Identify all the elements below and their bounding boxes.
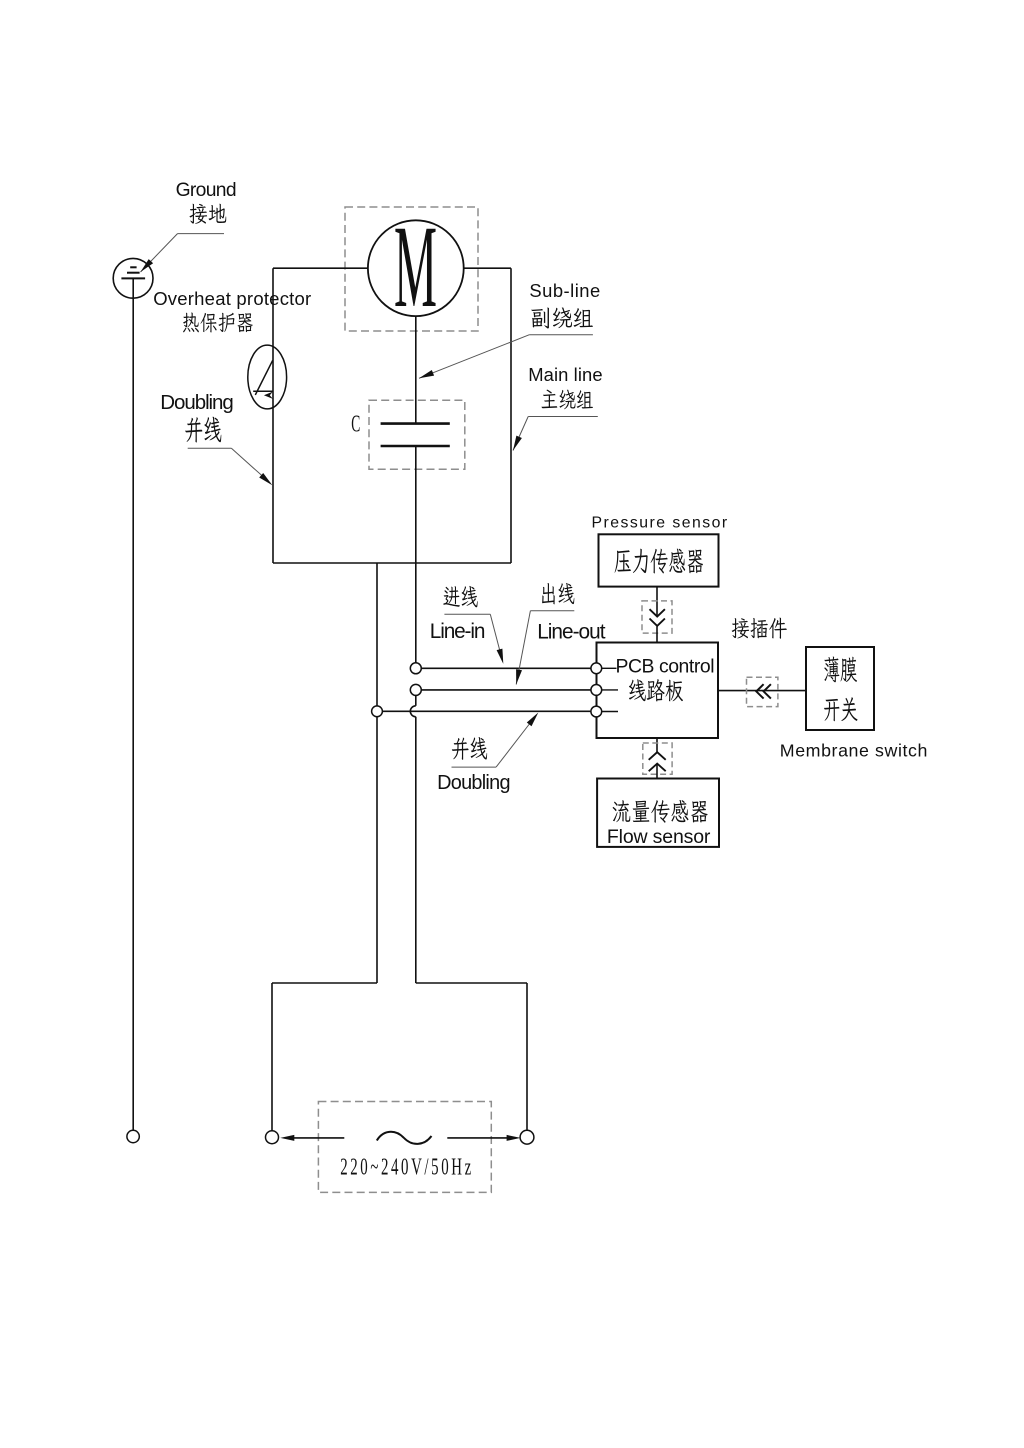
svg-text:M: M xyxy=(394,201,437,332)
svg-text:Sub-line: Sub-line xyxy=(529,280,600,301)
svg-text:220~240V/50Hz: 220~240V/50Hz xyxy=(340,1154,474,1180)
svg-text:Overheat protector: Overheat protector xyxy=(153,288,311,309)
svg-text:C: C xyxy=(351,412,360,438)
svg-text:Line-in: Line-in xyxy=(430,620,486,643)
svg-text:PCB control: PCB control xyxy=(616,655,715,677)
svg-text:Flow sensor: Flow sensor xyxy=(607,826,711,848)
svg-text:Pressure sensor: Pressure sensor xyxy=(592,515,728,532)
svg-text:Membrane switch: Membrane switch xyxy=(780,741,928,761)
svg-text:Ground: Ground xyxy=(176,180,237,201)
svg-text:Doubling: Doubling xyxy=(437,772,510,794)
svg-text:Doubling: Doubling xyxy=(160,391,234,414)
svg-text:Line-out: Line-out xyxy=(537,621,606,644)
svg-text:Main line: Main line xyxy=(528,364,602,385)
